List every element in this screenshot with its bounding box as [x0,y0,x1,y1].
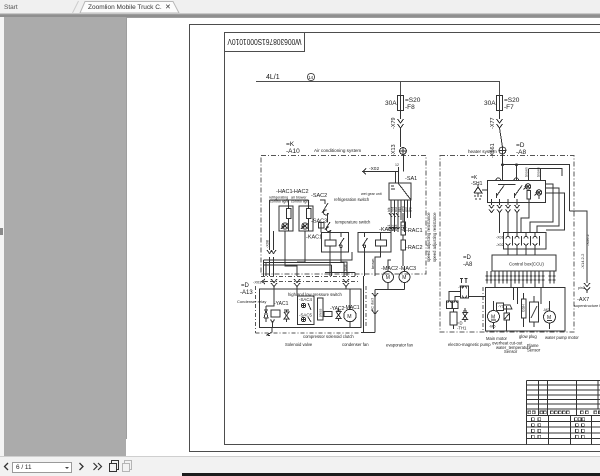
copy icon disabled [123,461,132,472]
control box CCU [492,255,556,271]
svg-text:-X56.2: -X56.2 [585,233,590,246]
condenser unit box [260,289,362,328]
wire below F8 with connector [398,111,404,148]
svg-text:-KAC1: -KAC1 [306,235,322,241]
wires under relays [330,252,381,276]
svg-text:pin2: pin2 [578,286,585,290]
svg-text:=K: =K [286,141,295,148]
node into AC box [400,148,407,155]
svg-text:speed adjusting resistance: speed adjusting resistance [426,212,431,262]
part number label box [225,33,305,52]
flame sensor [530,296,539,327]
svg-text:Control box(CCU): Control box(CCU) [509,262,544,267]
svg-text:condenser fan: condenser fan [342,342,369,347]
svg-text:brown: brown [537,167,541,177]
lamp 2 [536,190,542,196]
svg-text:superstructure harness: superstructure harness [574,304,600,308]
pressure sensor [318,298,324,320]
svg-text:14: 14 [308,75,313,80]
part number text (rotated 180) [227,37,301,47]
switch interconnects [321,219,330,233]
svg-text:-YAC1: -YAC1 [274,301,289,307]
node into heater box [499,147,506,154]
wire from node down to SA1 feed [403,155,405,172]
svg-text:-F8: -F8 [405,104,415,111]
heater unit dashed edge [482,287,484,332]
svg-text:-A8: -A8 [463,262,473,268]
svg-text:AC duct: AC duct [371,298,375,311]
svg-text:-X79: -X79 [391,117,397,129]
svg-text:-X03: -X03 [253,280,262,285]
svg-text:30A: 30A [484,100,496,107]
fuse F8 [398,96,404,111]
trunk node circle [307,73,314,80]
svg-text:-RAC1: -RAC1 [406,228,423,234]
svg-text:30A: 30A [385,100,397,107]
svg-text:-X01: -X01 [496,236,504,240]
title block tiny texts [528,411,600,438]
svg-text:Sensor: Sensor [527,348,541,353]
white document page [126,17,600,456]
svg-text:-RAC2: -RAC2 [406,245,423,251]
CCU pin row [486,271,556,288]
svg-text:-AX7: -AX7 [577,297,589,303]
svg-text:speed adjusting resistance: speed adjusting resistance [432,212,437,262]
heater system dashed box [440,156,574,333]
svg-text:M: M [402,275,406,281]
top connector bumps [496,178,519,181]
bottom arrow [267,328,272,336]
svg-text:=D: =D [241,283,250,289]
wire cluster below SA1 [389,200,411,232]
crossing chevrons [271,279,349,289]
svg-text:-F7: -F7 [504,104,514,111]
svg-text:brown: brown [371,259,375,269]
contacts [497,185,523,196]
svg-text:-HAC2: -HAC2 [292,189,309,195]
svg-text:Condenser relay: Condenser relay [237,299,266,304]
prev arrow [5,463,9,470]
svg-text:GSH: GSH [522,304,526,312]
svg-text:-X14.2-2: -X14.2-2 [580,253,585,269]
svg-text:-A13: -A13 [240,290,253,296]
motor return bus [361,276,405,333]
svg-text:-A8: -A8 [516,149,527,156]
feed wires [502,154,570,211]
bottom stubs [492,199,529,205]
svg-text:-HAC1: -HAC1 [276,189,293,195]
svg-text:-SA1: -SA1 [405,176,417,182]
svg-text:glow plug: glow plug [519,334,537,339]
svg-text:=D: =D [463,255,472,261]
svg-text:M: M [386,275,390,281]
page edge [127,18,600,440]
svg-text:M: M [347,314,351,320]
svg-text:evaporator fan: evaporator fan [386,343,414,348]
lamp supply wires [270,200,309,206]
lamp output wires [285,231,305,276]
wires connector to CCU [508,249,535,255]
svg-text:heater system: heater system [468,149,497,154]
left edge connector [262,279,268,284]
lamp 1 [525,184,531,190]
chevrons under switch box [489,205,520,213]
tiny wire labels cluster [387,206,412,231]
svg-text:-MAC3: -MAC3 [399,266,416,272]
svg-text:=S20: =S20 [504,97,520,104]
svg-text:-X08: -X08 [266,240,270,248]
svg-text:Air conditioning system: Air conditioning system [314,148,361,153]
svg-text:=S20: =S20 [405,97,421,104]
svg-text:-SAC3: -SAC3 [311,219,327,225]
svg-text:A24: A24 [401,225,405,231]
resistor RAC2 [401,240,406,266]
svg-text:-SH1: -SH1 [471,181,483,187]
svg-text:brown: brown [525,167,529,177]
svg-text:electro-magnetic pump: electro-magnetic pump [448,342,491,347]
heater unit box [486,288,566,332]
tab bar [0,0,600,13]
heater control switch box [488,181,546,203]
overheat cutout Y10 [497,303,513,311]
svg-text:-TH1: -TH1 [457,326,467,331]
svg-text:gry: gry [408,207,412,212]
connector -X02 [362,169,366,175]
A13 dashed enclosure [256,286,367,333]
main motor [488,311,500,323]
trunk wire [256,82,500,96]
svg-text:wet gear unit: wet gear unit [361,192,382,196]
sheet outer frame [190,25,600,453]
svg-text:=D: =D [516,142,525,149]
switch SH1 symbol [474,184,488,199]
svg-text:-SAC5: -SAC5 [299,313,312,318]
svg-text:-X02: -X02 [496,243,504,247]
wires to connector block [500,184,588,283]
svg-text:-SAC4: -SAC4 [299,297,312,302]
next arrow [80,463,84,470]
wire drop left [400,82,402,96]
resistor RAC1 [401,213,406,240]
pressure switch SAC4/SAC5 [298,296,315,325]
glow plug [522,293,527,327]
svg-text:4L/1: 4L/1 [266,74,280,81]
svg-text:-X13: -X13 [391,144,397,156]
resistor [527,191,531,200]
svg-text:-SAC2: -SAC2 [311,193,327,199]
relay output mesh [264,252,356,276]
svg-text:12: 12 [395,163,399,167]
svg-text:temperature switch: temperature switch [335,220,371,225]
wire horizontal feed [366,167,399,183]
water temperature sensor [504,288,541,332]
fuse F7 [497,96,503,111]
svg-text:-MAC2: -MAC2 [381,266,398,272]
svg-text:blue: blue [344,264,348,271]
svg-text:-X77: -X77 [490,117,496,129]
svg-text:Sensor: Sensor [504,349,518,354]
svg-text:-S8: -S8 [458,285,464,289]
last arrow [94,463,98,470]
bottom toolbar [0,456,600,476]
svg-text:compressor solenoid clutch: compressor solenoid clutch [303,334,354,339]
dashed wires into condenser [261,276,360,278]
svg-text:-A10: -A10 [286,148,300,155]
AC system dashed box [261,156,426,275]
sheet inner frame [225,52,600,445]
right loop wires [546,184,554,222]
svg-text:Solenoid valve: Solenoid valve [285,342,313,347]
strip below tabs [0,13,600,17]
connector block X01 [504,233,547,250]
wire below F7 with connector [497,111,503,148]
svg-text:high and low pressure switch: high and low pressure switch [288,292,342,297]
svg-text:water pump motor: water pump motor [545,335,579,340]
svg-text:W006308761S0001010V: W006308761S0001010V [227,37,301,47]
left drop wires [270,200,274,276]
svg-text:-M6: -M6 [489,325,496,329]
copy icon [110,461,119,472]
electro-magnetic pump [447,279,486,330]
svg-text:press: press [319,308,323,317]
svg-text:refrigeration switch: refrigeration switch [334,197,370,202]
svg-text:-Y1: -Y1 [498,305,504,309]
